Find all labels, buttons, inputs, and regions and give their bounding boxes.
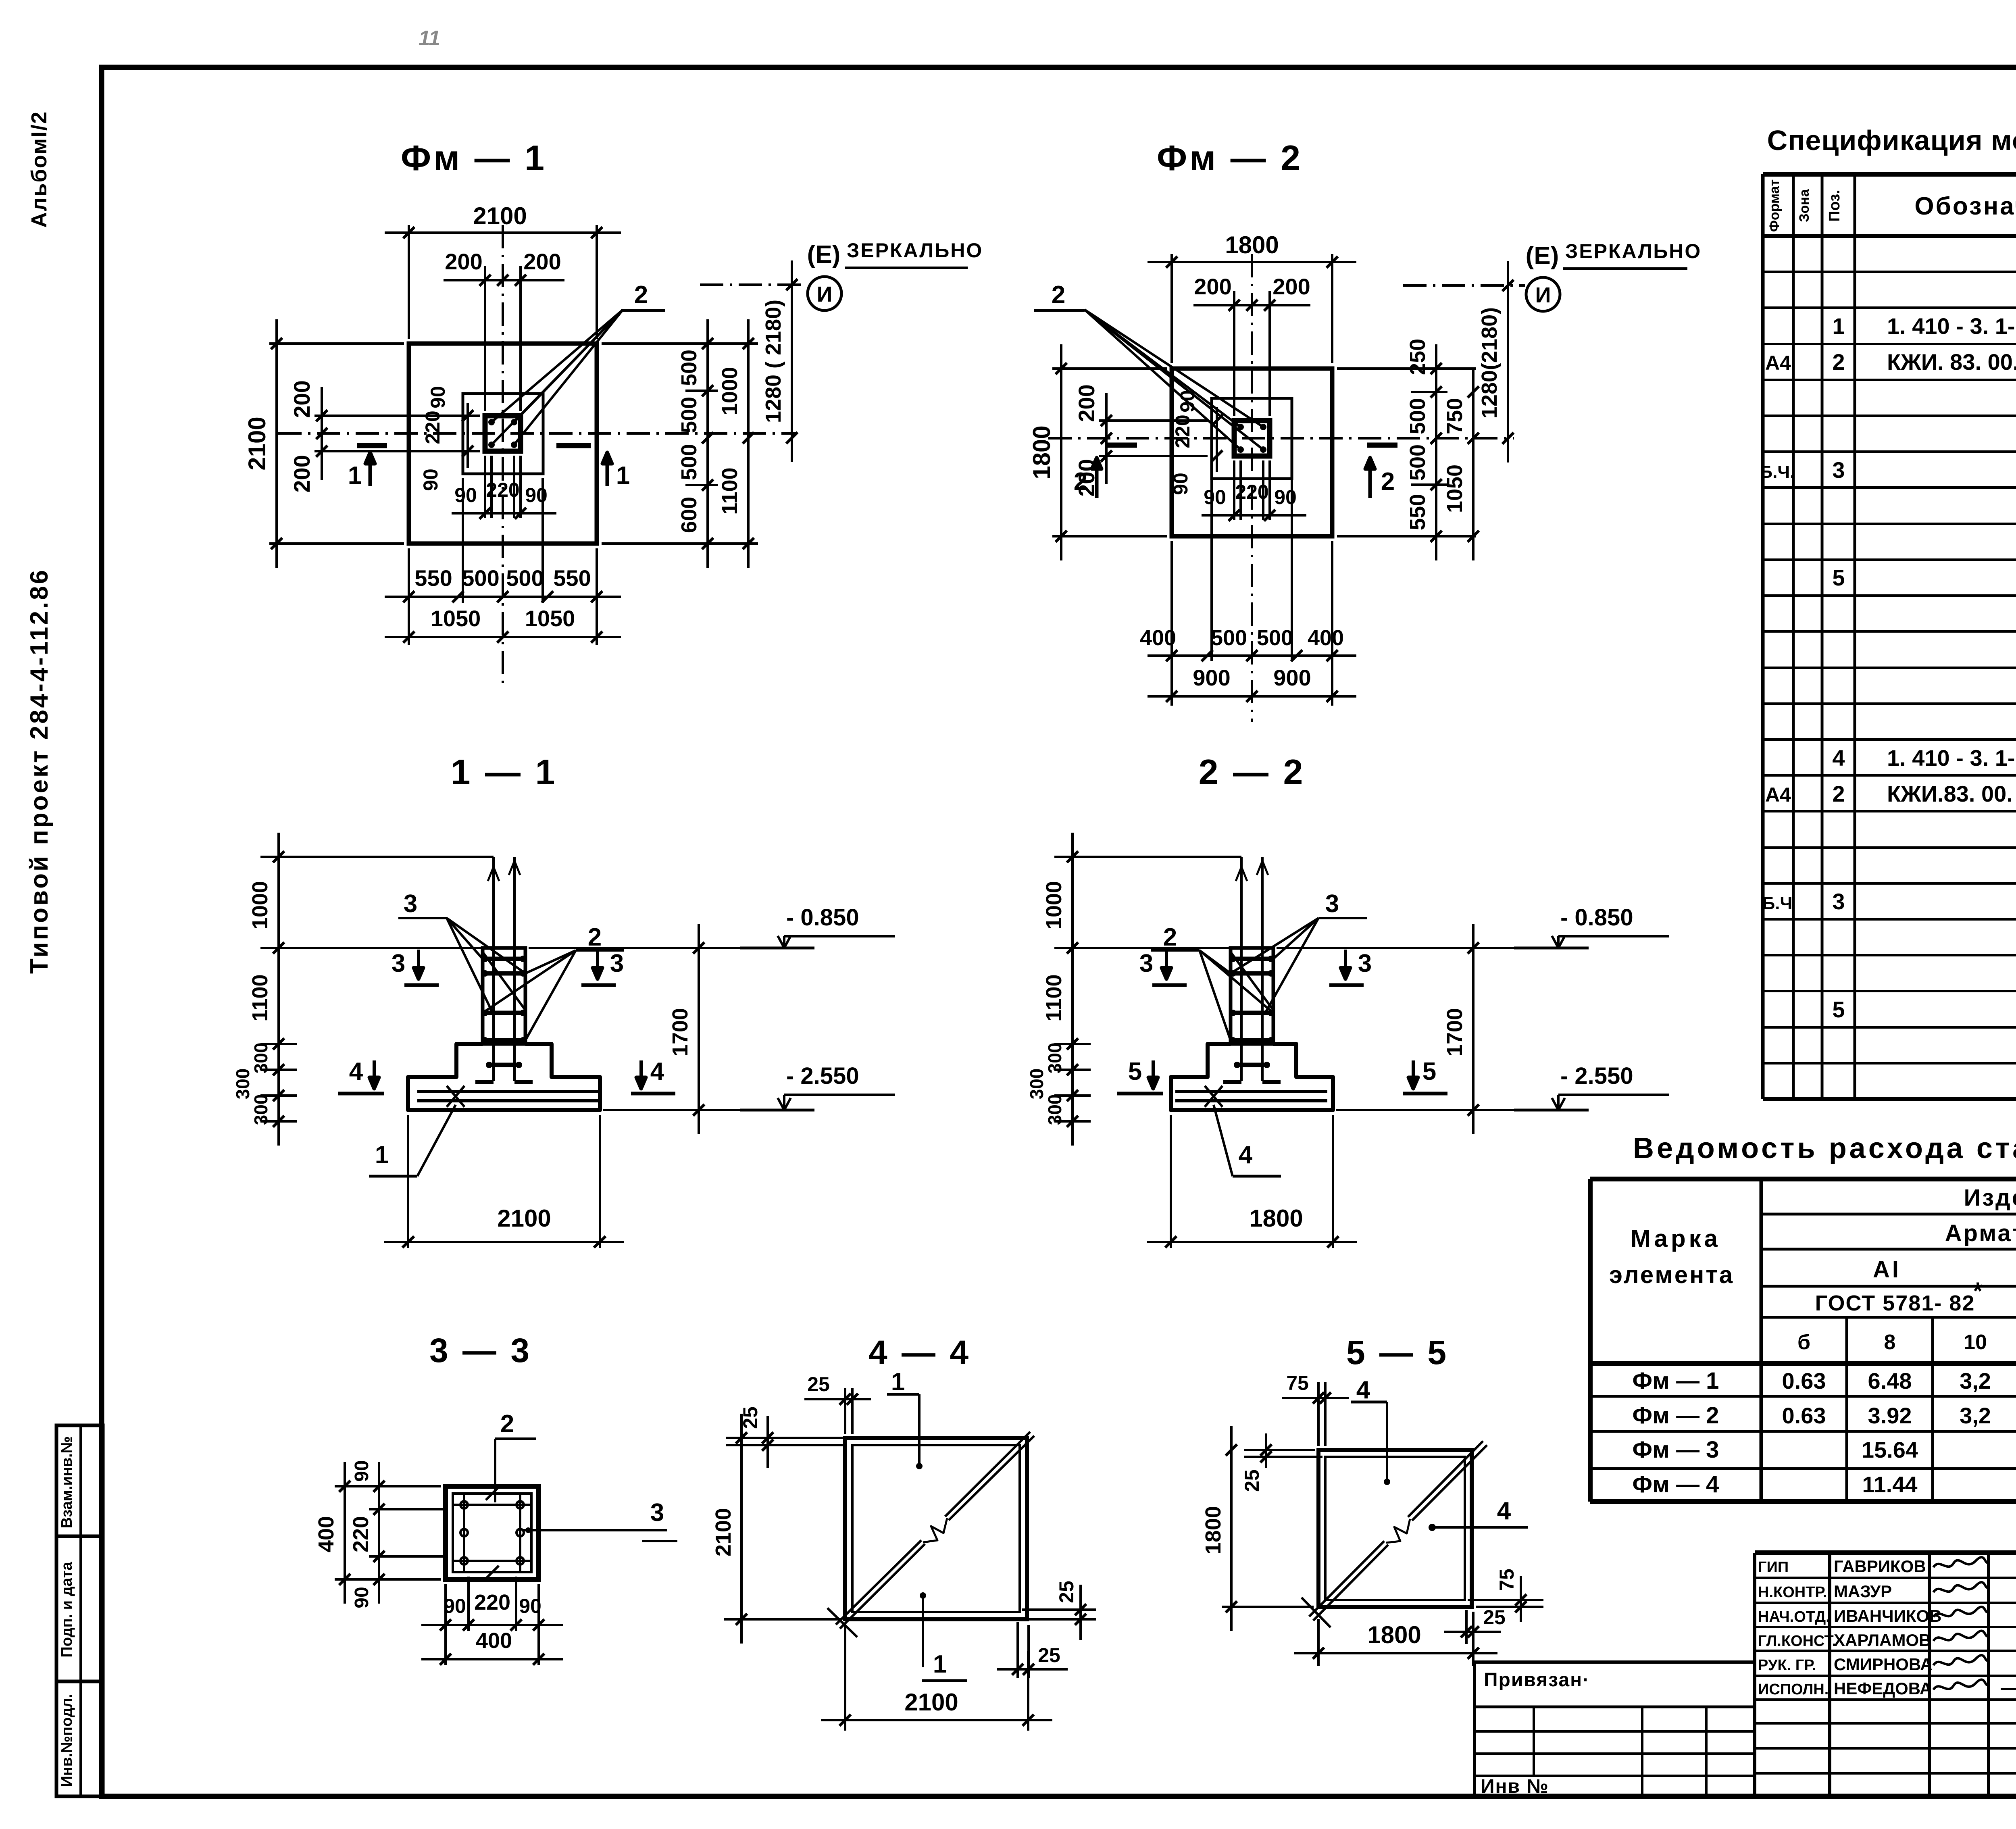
svg-text:1 — 1: 1 — 1 [451, 752, 558, 792]
svg-text:2: 2 [1052, 281, 1065, 309]
svg-text:б: б [1797, 1331, 1810, 1354]
svg-text:СМИРНОВА: СМИРНОВА [1834, 1655, 1933, 1674]
svg-text:2: 2 [1074, 468, 1087, 496]
svg-text:ГЛ.КОНСТ.: ГЛ.КОНСТ. [1758, 1633, 1836, 1650]
svg-text:90: 90 [525, 484, 548, 506]
svg-text:600: 600 [677, 497, 701, 533]
svg-text:1700: 1700 [1443, 1008, 1467, 1056]
svg-text:500: 500 [1406, 398, 1430, 434]
svg-text:1800: 1800 [1367, 1621, 1421, 1648]
svg-text:2: 2 [1381, 468, 1395, 496]
svg-text:- 0.850: - 0.850 [786, 904, 859, 931]
svg-text:РУК. ГР.: РУК. ГР. [1758, 1657, 1816, 1674]
svg-text:1800: 1800 [1201, 1506, 1225, 1554]
svg-text:750: 750 [1443, 398, 1467, 434]
svg-text:400: 400 [1308, 626, 1344, 650]
svg-text:250: 250 [1406, 339, 1430, 375]
svg-text:- 2.550: - 2.550 [786, 1063, 859, 1089]
svg-text:1: 1 [891, 1368, 905, 1396]
svg-text:Обозначение: Обозначение [1914, 192, 2016, 220]
svg-text:3: 3 [392, 950, 405, 977]
svg-text:550: 550 [1406, 494, 1430, 530]
svg-text:Фм — 1: Фм — 1 [1633, 1368, 1719, 1394]
svg-text:ХАРЛАМОВ: ХАРЛАМОВ [1834, 1631, 1931, 1650]
svg-text:3: 3 [1832, 457, 1845, 483]
svg-text:300: 300 [1044, 1094, 1065, 1125]
svg-text:Б.Ч.: Б.Ч. [1760, 462, 1795, 482]
svg-text:200: 200 [1194, 274, 1231, 299]
svg-text:1000: 1000 [718, 367, 742, 415]
svg-text:500: 500 [1211, 626, 1247, 650]
svg-text:220: 220 [474, 1590, 510, 1614]
svg-text:Ведомость расхода стали на оди: Ведомость расхода стали на один элемент,… [1633, 1132, 2016, 1164]
svg-text:3: 3 [1325, 890, 1339, 918]
svg-text:ИСПОЛН.: ИСПОЛН. [1758, 1681, 1829, 1698]
svg-text:1800: 1800 [1225, 231, 1279, 258]
svg-text:3: 3 [404, 890, 417, 918]
svg-text:Н.КОНТР.: Н.КОНТР. [1758, 1584, 1827, 1601]
svg-text:ГИП: ГИП [1758, 1559, 1789, 1576]
svg-text:1: 1 [933, 1650, 947, 1678]
svg-text:5: 5 [1422, 1058, 1436, 1085]
svg-text:КЖИ.83. 00. 0: КЖИ.83. 00. 0 [1887, 781, 2016, 806]
svg-text:2: 2 [1832, 349, 1845, 375]
svg-text:90: 90 [427, 386, 449, 408]
svg-text:2 — 2: 2 — 2 [1199, 752, 1306, 792]
svg-text:Фм — 3: Фм — 3 [1633, 1437, 1719, 1463]
svg-text:2100: 2100 [473, 202, 527, 229]
svg-text:900: 900 [1273, 665, 1311, 690]
svg-text:500: 500 [677, 350, 701, 386]
svg-text:- 0.850: - 0.850 [1560, 904, 1633, 931]
svg-text:220: 220 [1235, 481, 1268, 503]
svg-text:1: 1 [616, 462, 630, 490]
svg-text:2100: 2100 [904, 1689, 958, 1716]
svg-text:2100: 2100 [244, 417, 271, 470]
svg-text:500: 500 [1406, 444, 1430, 481]
svg-text:2: 2 [1832, 781, 1845, 806]
svg-text:- 2.550: - 2.550 [1560, 1063, 1633, 1089]
svg-text:1100: 1100 [1042, 974, 1066, 1021]
svg-text:25: 25 [1241, 1469, 1263, 1492]
svg-text:10: 10 [1964, 1331, 1987, 1354]
svg-text:25: 25 [1055, 1581, 1078, 1603]
svg-text:*: * [1973, 1277, 1983, 1304]
svg-text:Формат: Формат [1767, 179, 1782, 232]
svg-text:3: 3 [1832, 889, 1845, 914]
svg-text:Подп. и дата: Подп. и дата [58, 1562, 75, 1658]
svg-text:4: 4 [1239, 1141, 1253, 1169]
svg-text:0.63: 0.63 [1782, 1403, 1826, 1428]
svg-text:4: 4 [1497, 1497, 1511, 1525]
svg-text:1050: 1050 [525, 606, 575, 631]
svg-text:1100: 1100 [248, 974, 272, 1021]
svg-text:ИВАНЧИКОВ: ИВАНЧИКОВ [1834, 1606, 1941, 1625]
svg-text:(Е): (Е) [1526, 242, 1559, 270]
svg-text:15.64: 15.64 [1862, 1437, 1918, 1462]
svg-text:0.63: 0.63 [1782, 1368, 1826, 1394]
svg-text:11: 11 [419, 27, 440, 50]
svg-text:Изделия арматурные: Изделия арматурные [1964, 1185, 2016, 1211]
svg-text:4: 4 [1356, 1376, 1370, 1404]
svg-text:ГОСТ 5781- 82: ГОСТ 5781- 82 [1815, 1291, 1975, 1315]
svg-text:75: 75 [1286, 1372, 1309, 1394]
svg-text:8: 8 [1884, 1331, 1896, 1354]
svg-text:И: И [1535, 283, 1551, 307]
svg-text:А4: А4 [1765, 352, 1791, 374]
svg-text:550: 550 [414, 565, 452, 591]
svg-text:Фм — 4: Фм — 4 [1633, 1471, 1719, 1498]
svg-text:2: 2 [500, 1410, 514, 1438]
svg-text:3.92: 3.92 [1868, 1403, 1912, 1428]
svg-text:1100: 1100 [718, 467, 742, 515]
svg-text:550: 550 [553, 565, 591, 591]
svg-text:400: 400 [314, 1516, 338, 1552]
svg-text:3,2: 3,2 [1960, 1403, 1991, 1428]
svg-text:90: 90 [1176, 390, 1199, 412]
svg-text:2: 2 [1163, 923, 1177, 951]
svg-text:1800: 1800 [1249, 1205, 1303, 1232]
svg-text:90: 90 [454, 484, 477, 506]
svg-text:500: 500 [506, 565, 544, 591]
svg-text:1: 1 [348, 462, 362, 490]
svg-text:2: 2 [634, 281, 648, 309]
svg-text:4: 4 [1832, 745, 1845, 771]
svg-text:1050: 1050 [431, 606, 481, 631]
svg-text:300: 300 [1044, 1043, 1065, 1074]
svg-text:1700: 1700 [668, 1008, 692, 1056]
svg-text:1000: 1000 [1042, 881, 1066, 929]
svg-text:Фм — 2: Фм — 2 [1157, 138, 1303, 178]
svg-text:200: 200 [445, 249, 482, 274]
svg-text:Типовой проект 284-4-112.86: Типовой проект 284-4-112.86 [25, 568, 53, 974]
svg-text:90: 90 [444, 1595, 466, 1617]
svg-text:5: 5 [1832, 565, 1845, 590]
svg-text:Спецификация монолитных фундам: Спецификация монолитных фундаментов Фм-1… [1767, 125, 2016, 156]
svg-text:НЕФЕДОВА: НЕФЕДОВА [1834, 1679, 1932, 1698]
svg-text:11.44: 11.44 [1862, 1472, 1917, 1497]
svg-text:НАЧ.ОТД.: НАЧ.ОТД. [1758, 1608, 1830, 1625]
svg-text:200: 200 [289, 455, 314, 492]
svg-text:90: 90 [419, 469, 442, 491]
svg-text:300: 300 [250, 1043, 271, 1074]
svg-text:4 — 4: 4 — 4 [868, 1333, 971, 1371]
svg-text:400: 400 [476, 1629, 512, 1653]
svg-text:3: 3 [1358, 950, 1372, 977]
svg-text:ЗЕРКАЛЬНО: ЗЕРКАЛЬНО [1565, 240, 1702, 262]
svg-text:(Е): (Е) [807, 241, 841, 269]
svg-text:Фм — 2: Фм — 2 [1633, 1402, 1719, 1429]
svg-text:И: И [817, 282, 833, 306]
svg-text:2100: 2100 [711, 1508, 735, 1556]
svg-text:200: 200 [1074, 384, 1099, 422]
svg-text:3: 3 [650, 1499, 664, 1527]
svg-text:500: 500 [677, 444, 701, 480]
svg-text:ЗЕРКАЛЬНО: ЗЕРКАЛЬНО [847, 239, 983, 262]
svg-text:1000: 1000 [248, 881, 272, 929]
svg-text:5: 5 [1832, 997, 1845, 1022]
svg-text:Инв.№подл.: Инв.№подл. [58, 1694, 75, 1787]
svg-text:90: 90 [1274, 486, 1297, 508]
svg-text:25: 25 [1483, 1606, 1506, 1629]
svg-text:1. 410 - 3. 1- 07: 1. 410 - 3. 1- 07 [1887, 313, 2016, 339]
svg-text:25: 25 [807, 1373, 830, 1396]
svg-text:1. 410 - 3. 1- 05: 1. 410 - 3. 1- 05 [1887, 745, 2016, 771]
svg-text:200: 200 [1272, 274, 1310, 299]
svg-text:ГАВРИКОВ: ГАВРИКОВ [1834, 1557, 1926, 1576]
svg-text:90: 90 [519, 1595, 541, 1617]
svg-text:6.48: 6.48 [1868, 1368, 1912, 1394]
svg-text:200: 200 [523, 249, 561, 274]
svg-text:25: 25 [1038, 1644, 1060, 1667]
svg-text:90: 90 [1204, 486, 1226, 508]
svg-text:А4: А4 [1765, 783, 1791, 806]
svg-text:3: 3 [1139, 950, 1153, 977]
svg-text:500: 500 [677, 397, 701, 433]
svg-text:400: 400 [1140, 626, 1176, 650]
svg-text:Б.Ч: Б.Ч [1762, 894, 1793, 913]
svg-text:Поз.: Поз. [1826, 190, 1843, 221]
svg-text:220: 220 [1171, 415, 1194, 448]
svg-text:Привязан·: Привязан· [1484, 1669, 1590, 1691]
svg-text:220: 220 [486, 479, 519, 501]
svg-text:—: — [2001, 1677, 2016, 1699]
svg-text:Взам.инв.№: Взам.инв.№ [58, 1436, 75, 1528]
svg-text:5: 5 [1128, 1058, 1142, 1085]
svg-text:1280 ( 2180): 1280 ( 2180) [761, 300, 785, 423]
svg-text:1050: 1050 [1443, 465, 1467, 513]
svg-text:КЖИ. 83. 00. 0: КЖИ. 83. 00. 0 [1887, 349, 2016, 375]
svg-text:4: 4 [349, 1058, 363, 1085]
svg-text:4: 4 [650, 1058, 664, 1085]
svg-text:Зона: Зона [1797, 189, 1812, 222]
svg-text:1: 1 [1832, 313, 1845, 339]
svg-text:АльбомI/2: АльбомI/2 [27, 111, 51, 228]
svg-text:500: 500 [462, 565, 499, 591]
svg-text:200: 200 [289, 380, 314, 418]
svg-text:МАЗУР: МАЗУР [1834, 1582, 1892, 1601]
svg-text:90: 90 [351, 1587, 373, 1608]
svg-text:90: 90 [351, 1460, 373, 1481]
svg-text:500: 500 [1257, 626, 1293, 650]
svg-text:Арматура класса: Арматура класса [1945, 1220, 2016, 1246]
svg-text:5 — 5: 5 — 5 [1346, 1333, 1449, 1371]
svg-text:АI: АI [1873, 1256, 1901, 1283]
svg-text:3 — 3: 3 — 3 [429, 1331, 532, 1369]
svg-text:300: 300 [250, 1094, 271, 1125]
svg-text:3: 3 [610, 950, 624, 977]
svg-text:900: 900 [1193, 665, 1230, 690]
svg-text:220: 220 [349, 1516, 373, 1552]
svg-text:220: 220 [421, 410, 444, 444]
svg-text:1280(2180): 1280(2180) [1477, 307, 1502, 419]
svg-text:75: 75 [1495, 1569, 1518, 1591]
svg-text:3,2: 3,2 [1960, 1368, 1991, 1394]
svg-text:Марка: Марка [1631, 1225, 1721, 1252]
svg-text:2100: 2100 [497, 1205, 551, 1232]
svg-text:1800: 1800 [1028, 425, 1055, 479]
svg-text:1: 1 [375, 1141, 389, 1169]
svg-text:2: 2 [588, 923, 602, 951]
svg-text:элемента: элемента [1609, 1261, 1734, 1288]
svg-text:Фм — 1: Фм — 1 [401, 138, 547, 178]
svg-text:90: 90 [1169, 473, 1192, 495]
svg-text:Инв №: Инв № [1481, 1776, 1549, 1797]
